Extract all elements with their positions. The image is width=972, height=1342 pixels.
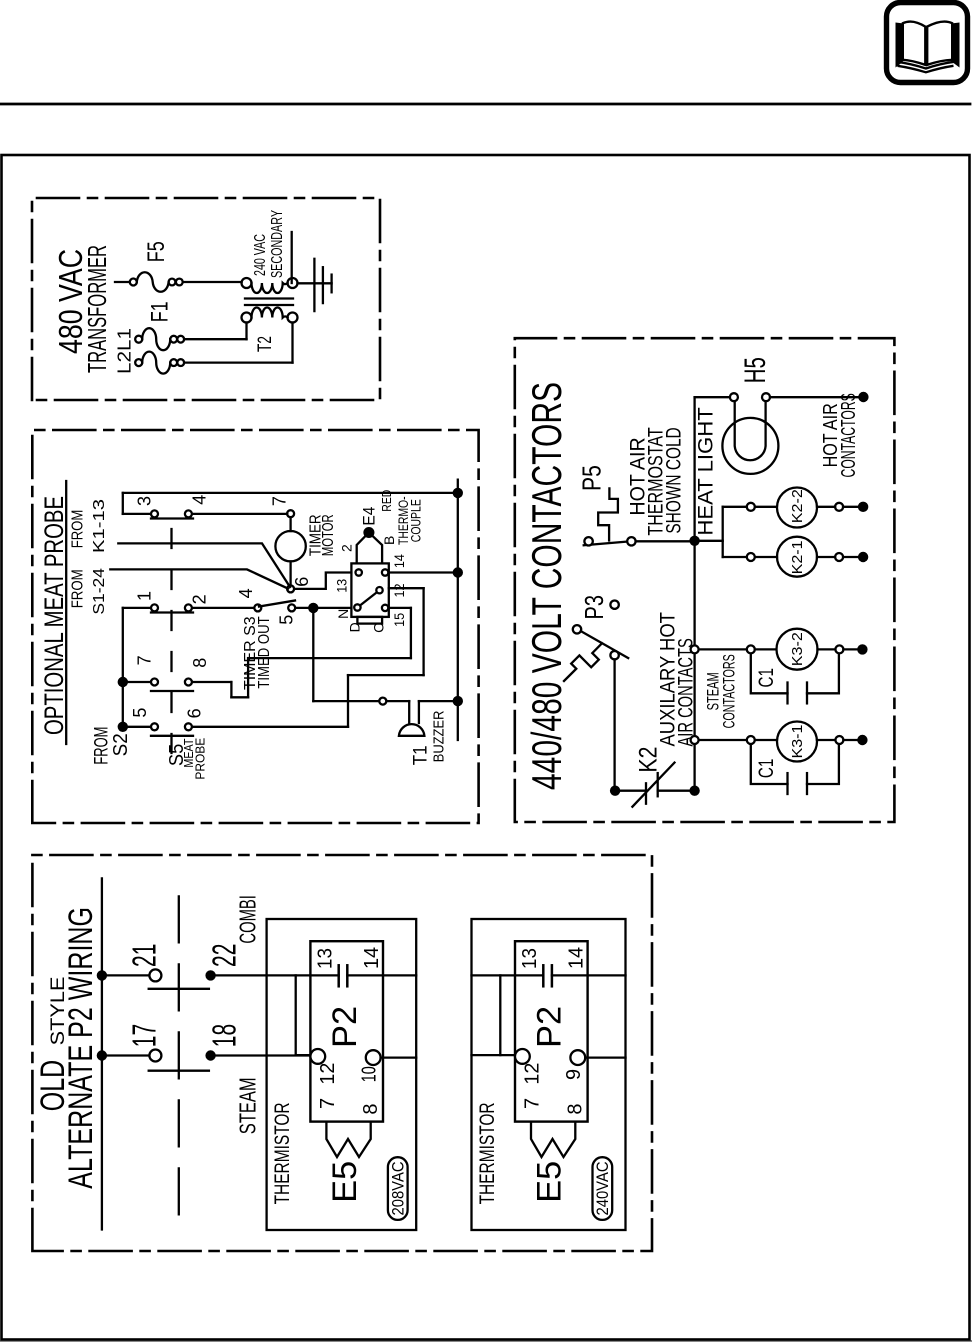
svg-text:S2: S2 — [110, 733, 132, 756]
svg-text:C: C — [371, 623, 387, 633]
svg-text:6: 6 — [185, 708, 205, 718]
svg-text:C1: C1 — [755, 759, 778, 778]
svg-text:208VAC: 208VAC — [390, 1161, 408, 1215]
svg-text:7: 7 — [317, 1098, 339, 1109]
svg-text:P3: P3 — [579, 595, 609, 620]
svg-text:17: 17 — [125, 1024, 162, 1047]
svg-text:3: 3 — [135, 496, 155, 506]
svg-text:13: 13 — [333, 579, 349, 593]
svg-text:8: 8 — [190, 658, 210, 668]
svg-text:E5: E5 — [326, 1161, 364, 1203]
svg-text:PROBE: PROBE — [192, 738, 207, 780]
svg-text:FROM: FROM — [69, 510, 86, 549]
svg-text:T1: T1 — [411, 745, 432, 765]
svg-text:12: 12 — [317, 1063, 339, 1085]
svg-text:STEAM: STEAM — [235, 1077, 261, 1134]
svg-text:1: 1 — [135, 591, 155, 601]
svg-text:K2: K2 — [635, 747, 663, 773]
svg-text:7: 7 — [135, 655, 155, 665]
svg-text:K3-2: K3-2 — [789, 632, 806, 666]
svg-text:SECONDARY: SECONDARY — [269, 210, 286, 278]
svg-text:HEAT LIGHT: HEAT LIGHT — [695, 407, 718, 536]
svg-text:K3-1: K3-1 — [789, 725, 806, 759]
svg-text:ALTERNATE P2 WIRING: ALTERNATE P2 WIRING — [62, 907, 100, 1189]
svg-text:4: 4 — [189, 495, 209, 505]
svg-text:4: 4 — [236, 588, 256, 598]
svg-text:12: 12 — [521, 1063, 543, 1085]
svg-text:P2: P2 — [531, 1006, 569, 1048]
svg-text:SHOWN COLD: SHOWN COLD — [663, 427, 686, 533]
svg-text:COUPLE: COUPLE — [408, 499, 423, 542]
svg-text:8: 8 — [564, 1103, 586, 1114]
svg-text:5: 5 — [277, 615, 297, 625]
svg-text:E5: E5 — [531, 1161, 569, 1203]
svg-text:240 VAC: 240 VAC — [252, 234, 269, 276]
svg-text:N: N — [335, 609, 351, 619]
svg-text:B: B — [381, 536, 397, 545]
svg-text:P2: P2 — [326, 1006, 364, 1048]
svg-text:7: 7 — [521, 1098, 543, 1109]
svg-text:CONTACTORS: CONTACTORS — [721, 654, 739, 728]
svg-text:F1: F1 — [147, 301, 174, 322]
svg-text:10: 10 — [359, 1066, 381, 1082]
svg-text:14: 14 — [391, 554, 407, 568]
svg-text:FROM: FROM — [69, 569, 86, 608]
svg-text:THERMISTOR: THERMISTOR — [271, 1102, 294, 1204]
svg-text:S1-24: S1-24 — [91, 568, 108, 615]
svg-text:K2-2: K2-2 — [789, 489, 806, 523]
svg-text:6: 6 — [292, 577, 312, 587]
svg-text:18: 18 — [206, 1024, 243, 1047]
svg-text:15: 15 — [391, 613, 407, 627]
svg-text:E4: E4 — [359, 507, 378, 526]
svg-text:2: 2 — [338, 544, 354, 552]
svg-text:MOTOR: MOTOR — [320, 514, 337, 556]
svg-text:7: 7 — [270, 496, 290, 506]
svg-text:OPTIONAL MEAT PROBE: OPTIONAL MEAT PROBE — [39, 496, 69, 735]
svg-text:440/480 VOLT CONTACTORS: 440/480 VOLT CONTACTORS — [523, 382, 570, 790]
svg-text:22: 22 — [206, 944, 243, 967]
svg-text:13: 13 — [519, 948, 541, 969]
svg-text:COMBI: COMBI — [235, 895, 261, 944]
svg-text:5: 5 — [130, 708, 150, 718]
svg-text:TIMED OUT: TIMED OUT — [256, 616, 273, 689]
svg-text:K1-13: K1-13 — [91, 499, 108, 553]
svg-text:L2L1: L2L1 — [113, 328, 134, 374]
svg-text:K2-1: K2-1 — [789, 540, 806, 574]
svg-text:H5: H5 — [739, 357, 772, 383]
svg-text:T2: T2 — [255, 336, 276, 352]
svg-text:13: 13 — [314, 948, 336, 969]
svg-text:2: 2 — [189, 594, 209, 604]
svg-text:THERMISTOR: THERMISTOR — [476, 1102, 499, 1204]
svg-text:14: 14 — [361, 947, 383, 969]
svg-text:AIR CONTACTS: AIR CONTACTS — [675, 638, 698, 746]
svg-text:F5: F5 — [143, 241, 170, 262]
svg-text:C1: C1 — [755, 668, 778, 687]
svg-text:TRANSFORMER: TRANSFORMER — [82, 245, 112, 373]
svg-text:RED: RED — [379, 490, 394, 512]
svg-text:BUZZER: BUZZER — [430, 710, 447, 762]
svg-text:9: 9 — [563, 1069, 585, 1080]
svg-text:14: 14 — [566, 947, 588, 969]
svg-text:8: 8 — [360, 1103, 382, 1114]
svg-text:D: D — [346, 622, 362, 632]
svg-text:21: 21 — [125, 944, 162, 967]
svg-text:CONTACTORS: CONTACTORS — [838, 393, 860, 477]
svg-text:12: 12 — [391, 583, 407, 597]
svg-text:240VAC: 240VAC — [594, 1161, 612, 1215]
svg-text:P5: P5 — [576, 465, 606, 491]
